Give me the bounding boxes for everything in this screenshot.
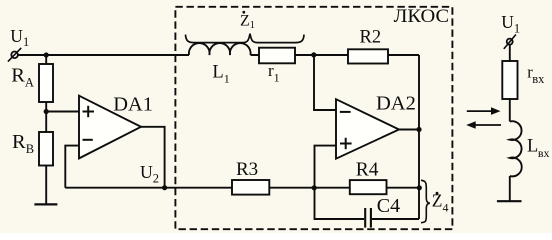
svg-text:DA2: DA2 — [376, 93, 416, 115]
svg-text:C4: C4 — [377, 195, 400, 217]
svg-text:ЛКОС: ЛКОС — [394, 7, 450, 27]
svg-text:R4: R4 — [356, 159, 379, 180]
svg-text:DA1: DA1 — [113, 93, 153, 115]
svg-text:R2: R2 — [360, 28, 382, 48]
svg-text:R3: R3 — [236, 159, 258, 180]
